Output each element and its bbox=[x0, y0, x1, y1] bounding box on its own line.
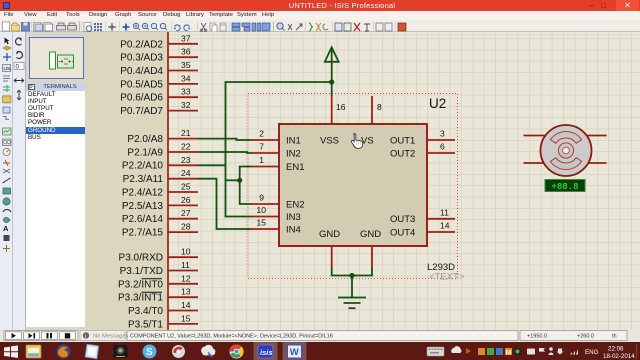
motor commutator arcs bbox=[550, 131, 581, 169]
tray bbox=[427, 347, 444, 356]
svg-text:36: 36 bbox=[181, 47, 191, 57]
svg-text:P3.3/INT1: P3.3/INT1 bbox=[118, 293, 163, 304]
svg-text:OUT4: OUT4 bbox=[390, 227, 415, 238]
svg-text:P2.4/A12: P2.4/A12 bbox=[122, 187, 164, 198]
U2 top pin numbers bbox=[336, 102, 382, 112]
svg-text:M: M bbox=[506, 349, 511, 356]
svg-text:VSS: VSS bbox=[320, 135, 339, 146]
svg-text:S: S bbox=[146, 347, 153, 358]
svg-text:No Messages: No Messages bbox=[93, 333, 129, 339]
svg-text:6: 6 bbox=[440, 142, 445, 152]
motor rpm display bbox=[545, 180, 585, 193]
svg-text:+1950.0: +1950.0 bbox=[527, 333, 547, 339]
svg-text:EN1: EN1 bbox=[286, 162, 304, 173]
port P3 pins of U1 (pins 10..15, P3.0/RXD..P3.5/T1) bbox=[168, 257, 198, 324]
svg-text:33: 33 bbox=[181, 87, 191, 97]
svg-text:COMPONENT U2, Value=L293D, Mod: COMPONENT U2, Value=L293D, Module=<NONE>… bbox=[130, 333, 333, 339]
U2 left pin numbers bbox=[257, 129, 267, 228]
svg-text:15: 15 bbox=[181, 313, 191, 323]
overbar on INT1 label bbox=[142, 291, 163, 293]
svg-text:P3.1/TXD: P3.1/TXD bbox=[120, 266, 163, 277]
svg-text:10: 10 bbox=[181, 247, 191, 257]
svg-text:isis: isis bbox=[260, 347, 273, 356]
svg-text:37: 37 bbox=[181, 33, 191, 43]
svg-text:22:06: 22:06 bbox=[608, 345, 624, 352]
wire: rail branch to junction bbox=[226, 179, 240, 181]
svg-text:P3.2/INT0: P3.2/INT0 bbox=[118, 279, 163, 290]
svg-text:P2.3/A11: P2.3/A11 bbox=[123, 174, 164, 185]
svg-text:11: 11 bbox=[181, 260, 190, 270]
port P2 pin numbers bbox=[181, 128, 191, 232]
svg-text:P3.4/T0: P3.4/T0 bbox=[128, 306, 163, 317]
svg-text:P2.7/A15: P2.7/A15 bbox=[122, 228, 164, 239]
wire: P2.1 pin22 to IN2 pin7 (with jog) bbox=[198, 152, 252, 153]
motor center hub bbox=[558, 143, 573, 158]
svg-text:10: 10 bbox=[257, 205, 267, 215]
port P2 pins of U1 (pins 21..28, P2.0/A8..P2.7/A15) bbox=[168, 139, 198, 233]
U2 right pins: 3,6,11,14 bbox=[427, 140, 455, 232]
svg-text:IN3: IN3 bbox=[286, 212, 301, 223]
wire: P2.0 pin21 to IN1 pin2 (with jog) bbox=[198, 139, 252, 140]
svg-text:23: 23 bbox=[181, 155, 191, 165]
svg-text:ENG: ENG bbox=[585, 349, 599, 356]
svg-text:P2.2/A10: P2.2/A10 bbox=[122, 161, 164, 172]
svg-text:28: 28 bbox=[181, 222, 191, 232]
svg-text:P0.5/AD5: P0.5/AD5 bbox=[120, 79, 163, 90]
svg-text:P3.5/T1: P3.5/T1 bbox=[128, 319, 163, 330]
power terminal arrow (VCC) bbox=[325, 47, 339, 96]
svg-text:EN2: EN2 bbox=[286, 199, 304, 210]
junction at power rail / VSS pin bbox=[329, 79, 334, 84]
port P0 pin numbers bbox=[181, 33, 191, 110]
svg-text:IN2: IN2 bbox=[286, 148, 301, 159]
svg-text:16: 16 bbox=[336, 102, 346, 112]
svg-text:OUT3: OUT3 bbox=[390, 214, 415, 225]
svg-text:A: A bbox=[3, 224, 9, 233]
svg-text:GND: GND bbox=[319, 229, 340, 240]
svg-text:IN4: IN4 bbox=[286, 224, 301, 235]
svg-text:14: 14 bbox=[181, 300, 191, 310]
wire: vertical rail down to IN3 pin10 bbox=[226, 180, 253, 216]
microcontroller U1 body (clipped at left edge) bbox=[86, 32, 168, 330]
wire: junction up to EN1 pin1 bbox=[240, 167, 252, 181]
svg-text:P2.1/A9: P2.1/A9 bbox=[127, 147, 163, 158]
svg-text:2: 2 bbox=[259, 129, 264, 139]
U2 bottom GND pins bbox=[332, 246, 372, 267]
wire: GND pins to ground bbox=[332, 267, 372, 298]
motor M1 leads bbox=[524, 136, 607, 164]
svg-text:35: 35 bbox=[181, 60, 191, 70]
svg-text:P0.2/AD2: P0.2/AD2 bbox=[120, 39, 163, 50]
svg-text:27: 27 bbox=[181, 208, 191, 218]
svg-text:P0.6/AD6: P0.6/AD6 bbox=[120, 93, 163, 104]
svg-text:W: W bbox=[290, 347, 299, 358]
svg-text:IN1: IN1 bbox=[286, 135, 301, 146]
svg-text:P0.3/AD3: P0.3/AD3 bbox=[120, 53, 163, 64]
U2 top pins 16 and 8 bbox=[332, 96, 372, 124]
junction at ground wire bbox=[349, 273, 354, 278]
svg-text:<TEXT>: <TEXT> bbox=[429, 272, 465, 283]
svg-text:18-02-2014: 18-02-2014 bbox=[603, 353, 635, 360]
svg-text:8: 8 bbox=[377, 102, 382, 112]
svg-text:OUT1: OUT1 bbox=[390, 135, 415, 146]
svg-text:15: 15 bbox=[257, 218, 267, 228]
port P0 pins of U1 (pins 37..32, P0.2/AD2..P0.7/AD7) bbox=[168, 44, 198, 111]
svg-text:22: 22 bbox=[181, 142, 191, 152]
svg-text:7: 7 bbox=[259, 142, 264, 152]
svg-text:P2.0/A8: P2.0/A8 bbox=[127, 134, 163, 145]
svg-text:24: 24 bbox=[181, 168, 191, 178]
svg-text:26: 26 bbox=[181, 195, 191, 205]
selection boundary (dotted red) around U2 bbox=[248, 94, 458, 279]
port P3 pin labels bbox=[118, 253, 163, 331]
svg-text:P0.4/AD4: P0.4/AD4 bbox=[120, 66, 163, 77]
wire: P2.2 pin23 joining vertical rail bbox=[198, 164, 226, 166]
svg-text:P3.0/RXD: P3.0/RXD bbox=[119, 253, 163, 264]
U2 inner pin name labels bbox=[286, 135, 415, 240]
svg-text:3: 3 bbox=[440, 129, 445, 139]
wire: junction down to EN2 pin9 bbox=[240, 180, 252, 204]
motor M1 body bbox=[541, 125, 592, 176]
svg-text:13: 13 bbox=[181, 287, 191, 297]
svg-text:P0.7/AD7: P0.7/AD7 bbox=[120, 106, 163, 117]
overbar on INT0 label bbox=[142, 278, 163, 280]
port P0 pin labels bbox=[120, 39, 163, 117]
wire: P2.3 pin24 to IN4 pin15 bbox=[198, 179, 252, 229]
svg-text:9: 9 bbox=[259, 193, 264, 203]
svg-text:P2.5/A13: P2.5/A13 bbox=[122, 201, 164, 212]
svg-text:+88.8: +88.8 bbox=[551, 182, 578, 192]
U2 left pins: 2,7,1,9,10,15 bbox=[252, 140, 279, 229]
op chip U2 L293D body bbox=[279, 124, 427, 246]
svg-text:th: th bbox=[612, 333, 617, 339]
svg-text:+260.0: +260.0 bbox=[577, 333, 594, 339]
svg-text:LBL: LBL bbox=[4, 66, 13, 71]
svg-text:21: 21 bbox=[181, 128, 191, 138]
svg-text:14: 14 bbox=[440, 221, 450, 231]
svg-text:25: 25 bbox=[181, 182, 191, 192]
wire: power rail from VSS junction to left vertical bbox=[226, 82, 332, 180]
svg-text:12: 12 bbox=[181, 273, 191, 283]
junction node near EN pins bbox=[237, 178, 242, 183]
start button bbox=[4, 345, 18, 358]
svg-text:11: 11 bbox=[440, 207, 449, 217]
port P3 pin numbers bbox=[181, 247, 191, 324]
svg-text:GND: GND bbox=[360, 229, 381, 240]
port P2 pin labels bbox=[122, 134, 164, 239]
svg-text:34: 34 bbox=[181, 73, 191, 83]
svg-text:OUT2: OUT2 bbox=[390, 148, 415, 159]
ground symbol bbox=[338, 298, 366, 309]
svg-text:P2.6/A14: P2.6/A14 bbox=[122, 214, 164, 225]
mouse cursor bbox=[351, 134, 362, 149]
svg-text:32: 32 bbox=[181, 100, 191, 110]
svg-text:1: 1 bbox=[259, 155, 264, 165]
svg-text:U2: U2 bbox=[429, 96, 446, 111]
U2 right pin numbers bbox=[440, 129, 450, 231]
